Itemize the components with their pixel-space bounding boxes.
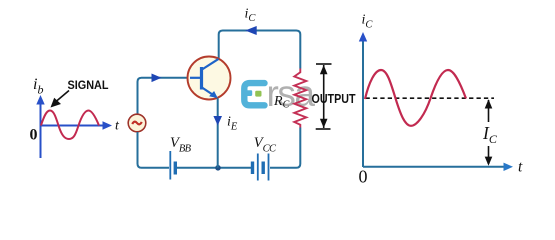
junction node (emitter to rail) [215,165,221,171]
watermark logo E [244,83,264,105]
wire: AC source top to transistor base [138,78,201,114]
collector current sine wave [365,70,466,126]
transistor Q1 [188,57,231,100]
wire: bottom rail VBB to VCC [177,167,251,169]
current arrow iE [213,116,222,126]
wire: collector riser and top rail [219,31,301,69]
svg-text:SIGNAL: SIGNAL [68,79,109,92]
svg-text:t: t [518,159,523,176]
signal sine wave [41,111,99,140]
output voltage dimension arrows [316,64,332,129]
axis t (right x-axis) [363,163,513,171]
dimension arrow IC [485,99,493,166]
current arrow into base [152,74,162,83]
current arrow iC on top rail [245,26,257,35]
wire: emitter to bottom rail [217,98,219,168]
axis iC (right y-axis) [359,32,367,167]
axis ib (left y-axis) [36,95,44,158]
SIGNAL pointer arrow [51,91,70,108]
axis t (left x-axis) [40,121,113,129]
svg-text:OUTPUT: OUTPUT [312,91,356,106]
svg-text:0: 0 [30,127,38,144]
dc level dashed line [366,97,495,99]
battery VBB [170,151,175,180]
resistor RC [294,69,306,128]
battery VCC [253,154,269,181]
wire: AC source bottom to rail [138,132,170,168]
svg-text:0: 0 [359,167,368,187]
AC source V1 [128,114,146,132]
wire: bottom rail right with riser to resistor [270,128,300,168]
